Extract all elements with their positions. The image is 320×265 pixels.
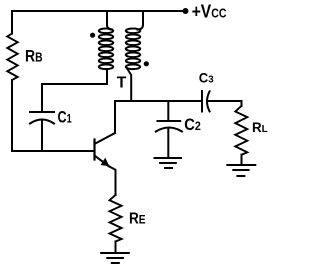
svg-text:C2: C2: [184, 116, 201, 134]
svg-text:T: T: [117, 75, 127, 92]
svg-text:C3: C3: [199, 71, 214, 86]
wire RL top lead: [241, 101, 243, 106]
wire base horizontal: [12, 150, 94, 152]
transformer T left winding: [99, 29, 113, 70]
capacitor C2: [156, 121, 182, 132]
wire C1 to transformer secondary: [42, 69, 107, 84]
svg-text:C1: C1: [58, 109, 72, 127]
resistor RL: [235, 106, 247, 155]
wire RL to ground: [241, 155, 243, 165]
wire left coil top lead: [107, 11, 112, 30]
svg-text:+VCC: +VCC: [192, 1, 227, 22]
svg-text:RL: RL: [252, 119, 268, 135]
wire C3 to RL: [208, 100, 242, 102]
wire C1 top lead: [41, 84, 43, 112]
wire C1 bottom lead: [41, 120, 43, 152]
ground C2: [155, 158, 182, 168]
transformer left phase dot: [90, 33, 95, 38]
wire left vertical top (rail to RB): [11, 11, 13, 34]
transformer T right winding: [126, 29, 140, 70]
svg-text:RB: RB: [25, 47, 43, 66]
capacitor C3: [202, 91, 210, 112]
transistor Q1: [95, 133, 116, 195]
wire right coil top lead: [138, 11, 143, 30]
wire collector node horizontal: [115, 100, 202, 102]
wire collector vertical: [114, 101, 116, 133]
resistor RB: [7, 34, 17, 81]
ground RE: [101, 253, 129, 263]
wire top supply rail: [12, 10, 186, 12]
transformer right phase dot: [144, 61, 149, 66]
capacitor C1: [30, 112, 54, 124]
wire RB bottom to base node: [11, 80, 13, 151]
ground RL: [227, 165, 255, 176]
resistor RE: [110, 195, 122, 242]
node +VCC terminal dot: [183, 8, 189, 14]
wire RE to ground: [115, 242, 117, 253]
wire C2 top lead: [167, 101, 169, 121]
svg-text:RE: RE: [129, 210, 146, 227]
wire right coil bottom lead to collector node: [127, 69, 131, 101]
wire C2 bottom lead: [167, 128, 169, 158]
